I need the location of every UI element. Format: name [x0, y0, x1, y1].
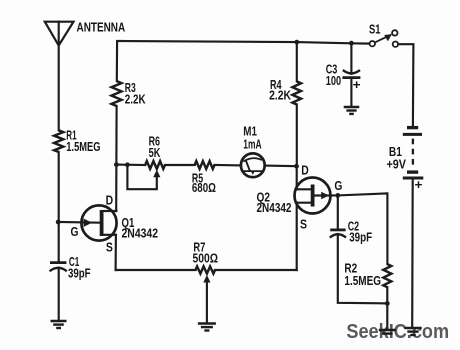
svg-text:S1: S1: [369, 23, 381, 37]
node R4 top: [294, 40, 299, 45]
svg-text:D: D: [106, 194, 114, 208]
resistor R2: [383, 264, 391, 287]
wire battery to ground: [411, 178, 414, 327]
node C3 top: [349, 41, 354, 46]
switch S1: [370, 30, 399, 47]
wire tuning rail: [116, 164, 145, 167]
svg-text:SeekIC.com: SeekIC.com: [346, 320, 449, 343]
wire C3 to ground: [350, 78, 352, 106]
resistor R1: [54, 130, 63, 152]
wire C1 to ground: [58, 268, 60, 320]
wire C2 bottom to node: [338, 234, 388, 303]
wire R6 to R5: [165, 164, 195, 166]
node wiper return: [125, 162, 130, 167]
svg-text:2.2K: 2.2K: [125, 93, 146, 107]
wire R5 to M1: [215, 164, 242, 167]
svg-text:G: G: [334, 179, 342, 193]
R6 wiper arrow: [153, 170, 160, 178]
node Q2 gate: [335, 193, 340, 198]
wire R6 wiper return: [127, 165, 156, 189]
wire bottom rail right: [215, 269, 297, 271]
capacitor C1: [50, 263, 67, 272]
capacitor C3: [342, 70, 360, 78]
svg-text:680Ω: 680Ω: [192, 181, 216, 195]
transistor Q2: [295, 178, 338, 214]
svg-text:S: S: [106, 241, 113, 255]
wire R4 to node: [296, 105, 298, 167]
wire bottom rail left: [116, 269, 196, 271]
svg-text:1.5MEG: 1.5MEG: [66, 140, 100, 154]
antenna: [45, 22, 74, 131]
resistor R5: [195, 161, 215, 169]
node R2/C2 bottom: [385, 301, 390, 306]
svg-text:1mA: 1mA: [243, 137, 261, 151]
svg-text:2N4342: 2N4342: [122, 226, 159, 240]
svg-text:100: 100: [326, 74, 341, 88]
node meter / R4 / Q2 drain: [294, 164, 299, 169]
node left branch / R6 wire: [114, 162, 119, 167]
svg-text:D: D: [301, 164, 309, 178]
svg-text:+9V: +9V: [387, 157, 407, 171]
node gate Q1 junction: [56, 220, 61, 225]
R7 wiper arrow: [203, 275, 210, 283]
wire left branch R3 to Q1 drain: [115, 106, 118, 211]
wire R2 to bottom node: [386, 287, 388, 303]
wire top rail: [117, 41, 370, 81]
potentiometer R7: [196, 266, 216, 273]
svg-text:2N4342: 2N4342: [257, 201, 292, 215]
wire M1 to drain node: [265, 165, 297, 168]
svg-text:39pF: 39pF: [68, 266, 91, 280]
ground (R7 wiper): [198, 324, 216, 331]
svg-text:500Ω: 500Ω: [193, 252, 219, 266]
ground (antenna branch): [51, 321, 67, 328]
wire switch to battery: [398, 44, 413, 126]
svg-text:39pF: 39pF: [349, 231, 372, 245]
svg-text:ANTENNA: ANTENNA: [77, 19, 126, 34]
wire gate to R2 branch: [338, 193, 388, 264]
wire C3 branch: [350, 43, 352, 74]
svg-text:2.2K: 2.2K: [269, 89, 291, 103]
svg-text:G: G: [71, 225, 79, 239]
battery B1: [403, 128, 424, 178]
ground (C3): [344, 107, 360, 114]
wire Q2 source down: [296, 203, 298, 270]
wire Q2 drain up: [296, 166, 298, 189]
ground (R2/C2): [379, 330, 396, 334]
meter M1: [241, 153, 265, 177]
ground (battery): [404, 328, 421, 335]
svg-text:+: +: [353, 78, 361, 92]
wire R7 wiper to ground: [206, 281, 208, 323]
wire antenna line mid: [58, 152, 60, 262]
potentiometer R6: [145, 161, 165, 169]
resistor R3: [112, 81, 122, 106]
wire Q1 source down: [115, 235, 117, 270]
resistor R4: [292, 81, 301, 104]
svg-text:1.5MEG: 1.5MEG: [344, 274, 381, 288]
svg-text:5K: 5K: [149, 146, 161, 160]
svg-text:+: +: [415, 178, 423, 192]
svg-text:S: S: [300, 218, 307, 232]
wire R4 branch top: [296, 42, 298, 81]
transistor Q1: [58, 205, 116, 240]
capacitor C2: [337, 195, 339, 229]
wire node to ground: [386, 303, 388, 329]
